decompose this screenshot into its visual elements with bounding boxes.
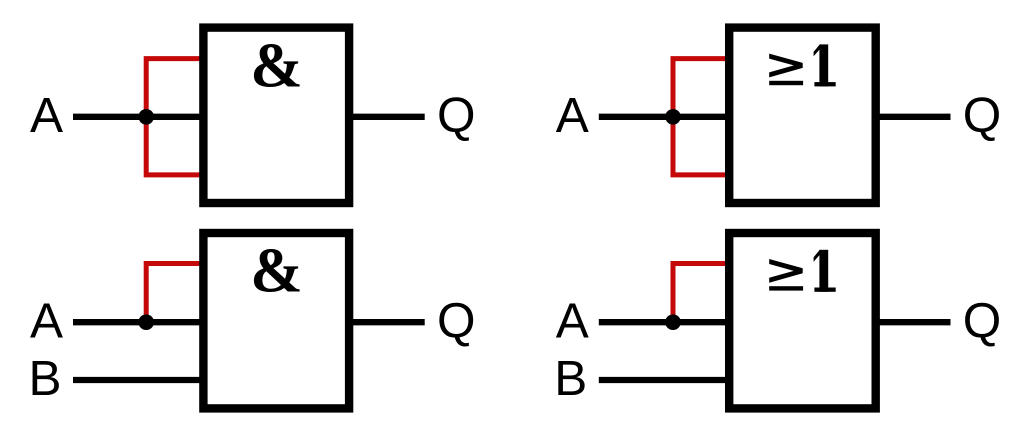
- junction (node A): [138, 314, 154, 330]
- wire: output Q of U3: [349, 319, 425, 325]
- wire: output Q of U4: [875, 319, 951, 325]
- label >=1 (U2): greater-equal chevron: [769, 54, 803, 78]
- label >=1 (U4): digit 1 stem: [819, 250, 828, 292]
- gate box U3 (AND, IEC symbol): [203, 233, 349, 408]
- svg-text:&: &: [250, 30, 302, 100]
- svg-text:Q: Q: [437, 293, 476, 348]
- label >=1 (U2): digit 1 stem: [819, 44, 828, 86]
- red bridge wire (input A to top and bottom pins of U2): [673, 59, 733, 175]
- wire: input A to U1: [73, 114, 208, 120]
- wire: input A to U3: [73, 319, 208, 325]
- red bridge wire (input A to top pin of U3): [146, 264, 207, 323]
- label >=1 (U4): greater-equal chevron: [769, 259, 803, 283]
- label >=1 (U4): underline of greater-equal: [769, 286, 803, 290]
- svg-text:A: A: [556, 88, 589, 143]
- gate box U2 (OR, IEC symbol): [729, 28, 876, 203]
- svg-text:Q: Q: [963, 293, 1002, 348]
- svg-text:A: A: [30, 88, 63, 143]
- svg-text:A: A: [30, 293, 63, 348]
- label >=1 (U2): digit 1 flag: [814, 44, 820, 56]
- wire: input B to U4: [599, 377, 734, 383]
- wire: input A to U4: [599, 319, 734, 325]
- svg-text:Q: Q: [963, 87, 1002, 142]
- red bridge wire (input A to top pin of U4): [673, 264, 733, 323]
- gate box U1 (AND, IEC symbol): [203, 28, 349, 203]
- gate box U4 (OR, IEC symbol): [729, 233, 876, 408]
- wire: input A to U2: [599, 114, 734, 120]
- junction (node A): [665, 109, 681, 125]
- junction (node A): [665, 314, 681, 330]
- svg-text:Q: Q: [437, 87, 476, 142]
- label >=1 (U2): underline of greater-equal: [769, 81, 803, 85]
- wire: input B to U3: [73, 377, 208, 383]
- junction (node A): [138, 109, 154, 125]
- svg-text:B: B: [29, 351, 62, 406]
- svg-text:A: A: [556, 293, 589, 348]
- label >=1 (U4): digit 1 base: [814, 288, 835, 292]
- wire: output Q of U2: [875, 114, 951, 120]
- label >=1 (U4): digit 1 flag: [814, 250, 820, 262]
- label >=1 (U2): digit 1 base: [814, 82, 835, 86]
- red bridge wire (input A to top and bottom pins of U1): [146, 59, 207, 175]
- wire: output Q of U1: [349, 114, 425, 120]
- svg-text:B: B: [554, 351, 587, 406]
- svg-text:&: &: [250, 236, 302, 306]
